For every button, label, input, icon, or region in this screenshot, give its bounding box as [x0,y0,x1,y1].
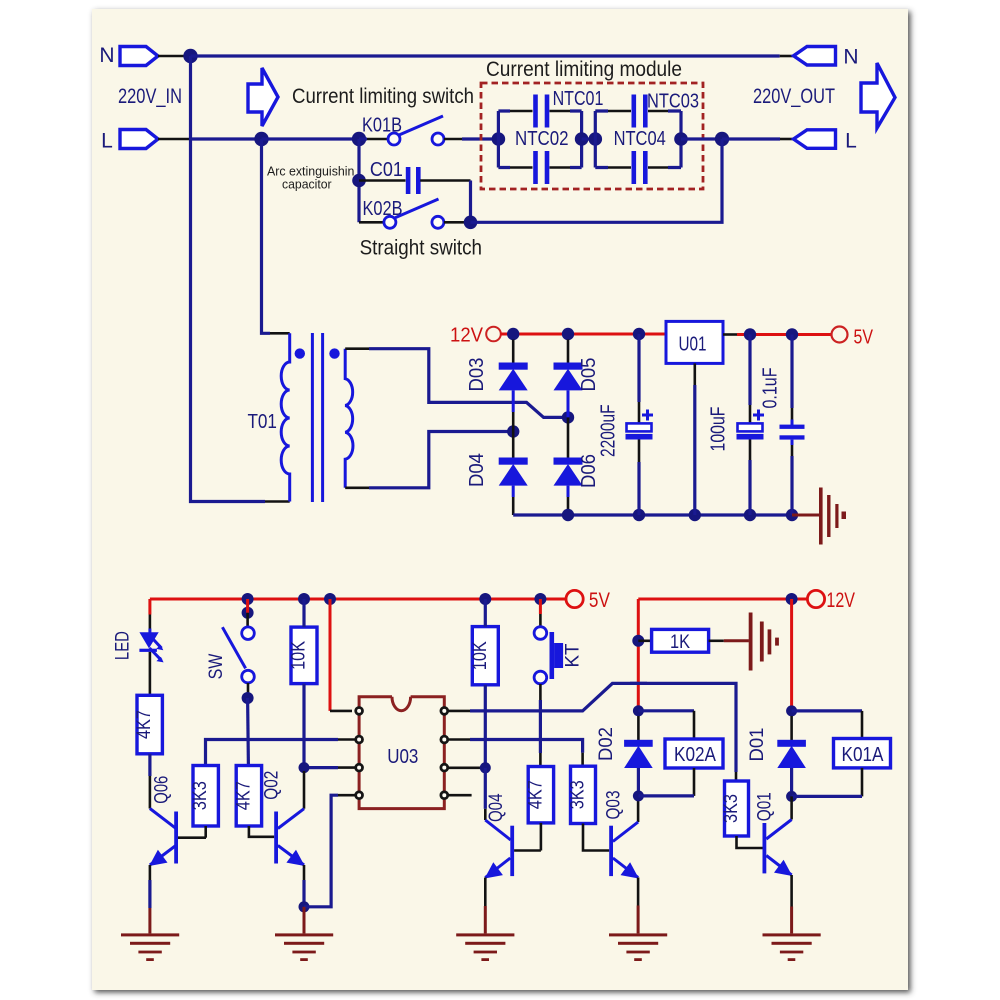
IC U03 pins left [356,708,363,715]
wire secondary bottom lead [345,486,369,489]
node group1 out dot [575,132,589,146]
svg-text:10K: 10K [470,641,491,670]
wire C01 down [469,181,472,223]
svg-text:Current limiting module: Current limiting module [486,58,682,81]
wire 12V rail [638,598,807,601]
wire pin5 stub [448,794,472,797]
arrow 220V_OUT direction [861,63,895,128]
node D02 top dot [633,705,644,716]
wire U01 ground pin [693,363,696,385]
diode D02 [637,716,640,740]
svg-text:SW: SW [205,653,227,679]
ground Q02 [275,933,333,936]
terminal 12V [486,327,501,342]
svg-text:10K: 10K [289,641,310,670]
svg-text:D04: D04 [466,453,488,487]
transformer polarity dot primary [295,348,305,358]
svg-text:4K7: 4K7 [525,780,546,809]
capacitor C-100uF [748,335,751,406]
wire K02B left lead [359,221,384,224]
resistor R-1K [638,639,651,642]
svg-text:K01A: K01A [842,744,885,766]
wire 12V right vertical (red) [790,599,793,711]
connector 220V_OUT N (pentagon) [794,47,836,66]
pushbutton KT [534,627,547,640]
node D3-D4 mid dot [507,425,519,437]
node 12V dot [786,593,798,605]
terminal 5V mid [832,327,848,343]
transformer polarity dot secondary [329,348,339,358]
regulator U01 [666,321,723,363]
connector 220V_IN N (pentagon) [120,47,158,66]
svg-text:NTC04: NTC04 [614,128,666,150]
LED D-LED [139,632,158,648]
node rail dots [562,509,574,521]
resistor R-10Kb [472,627,498,685]
wire 5V to U03 pin1 (red) [329,599,332,711]
wire C01 right lead [420,179,470,182]
svg-text:0.1uF: 0.1uF [759,368,781,409]
capacitor C-2200uF [637,334,640,402]
wire 10Kb leads [484,599,487,627]
svg-text:5V: 5V [854,327,874,349]
wire N stub [158,55,185,58]
wire 10Ka leads [302,599,305,627]
switch K02B [384,216,396,228]
capacitor C01 [406,167,411,194]
relay coil K02A [638,709,694,712]
svg-text:Q03: Q03 [603,791,625,820]
wire KT to 4K7c [539,684,542,700]
svg-text:12V: 12V [450,325,484,347]
wire L lead [192,137,262,140]
node C01 branch dot [352,174,366,188]
diode D03 [512,340,515,363]
thermistor NTC04 [632,151,637,184]
svg-text:D01: D01 [746,728,768,762]
thermistor NTC03 [632,95,637,128]
wire module to L out [681,137,722,140]
svg-text:D05: D05 [578,358,600,392]
capacitor C-0.1uF [790,335,793,409]
switch SW branch [242,607,254,619]
wire NTC group1 frame [498,111,581,168]
wire 12V left vertical (red) [637,599,640,711]
wire 12V rail [501,333,667,336]
svg-text:Current limiting switch: Current limiting switch [292,85,474,108]
resistor R-4K7c [528,767,553,823]
node L out junction [715,132,729,146]
thermistor NTC02 [533,151,538,184]
wire Q04 emitter ground [484,878,487,907]
node D05 top dot [562,328,574,340]
transistor Q03 [637,796,640,822]
node pin6 dot [480,762,491,773]
ground 1K (sideways) [749,613,753,671]
transistor Q06 [150,809,176,829]
wire KT branch [539,599,542,614]
diode D01 [790,716,793,740]
node 1K dot [632,635,644,647]
node C-0.1uF top dot [786,328,798,340]
svg-text:2200uF: 2200uF [598,404,620,457]
wire NTC group2 leads [608,111,668,168]
wire N stub right [780,55,795,58]
node group2 out dot [674,132,688,146]
ground mid (sideways) [819,488,823,545]
wire pin8 crossing patch [630,682,647,685]
wire secondary top lead [345,347,369,350]
node pin3 dot [299,762,310,773]
resistor R-3K3b [571,766,596,823]
transformer T01 core [311,333,314,502]
svg-text:NTC01: NTC01 [553,88,604,110]
svg-text:NTC02: NTC02 [515,128,569,150]
svg-text:Q06: Q06 [150,776,172,804]
wire arc-branch vertical [357,139,360,222]
wire 4K7b bottom to Q02 base [249,826,274,837]
svg-text:Q04: Q04 [485,793,507,822]
svg-text:100uF: 100uF [708,407,730,452]
svg-text:Q01: Q01 [754,792,776,821]
wire pin3 line [338,766,355,769]
svg-text:1K: 1K [670,632,690,653]
wire NTC group1 leads [510,111,570,168]
wire NTC group2 frame [595,111,681,168]
resistor R-4K7b [236,766,261,827]
svg-text:4K7: 4K7 [233,781,254,810]
svg-text:3K3: 3K3 [721,794,742,823]
resistor R-4K7a [137,695,162,754]
node L junction (arc branch) [352,132,366,146]
wire to mid ground [792,514,819,517]
wire pin8 line to 3K3c [448,710,470,713]
node group2 in dot [589,132,603,146]
svg-text:NTC03: NTC03 [647,91,699,113]
svg-text:4K7: 4K7 [134,710,155,739]
wire pin6 lead [448,766,480,769]
wire C01 left lead [359,179,406,182]
wire N-side to transformer primary [191,56,266,502]
svg-text:KT: KT [562,643,584,667]
wire SW bottom [247,683,250,693]
transformer T01 secondary winding [345,349,353,488]
svg-text:L: L [845,130,857,153]
svg-text:N: N [99,44,114,67]
switch SW [242,627,255,640]
node module in dot [492,132,506,146]
resistor R-10Ka [291,627,317,684]
terminal 12V bottom [807,590,824,607]
svg-text:D06: D06 [578,454,600,488]
wire K02B right lead [444,221,465,224]
wire ground rail [513,513,792,516]
connector 220V_IN L (pentagon) [120,130,158,149]
resistor R-3K3a [193,766,218,827]
svg-text:Straight switch: Straight switch [360,237,482,260]
wire pin7 line to 3K3b [448,738,470,741]
ground Q04 [456,933,514,936]
LED branch [148,599,151,615]
diode D05 [567,340,570,363]
ground Q01 [763,933,821,936]
svg-text:3K3: 3K3 [568,780,589,809]
transistor Q01 [790,796,793,819]
switch K01B [388,133,400,145]
node D5-D6 mid dot [562,411,574,423]
transistor Q02 [303,771,306,809]
svg-text:LED: LED [111,631,133,660]
wire Q01 emitter ground [790,875,793,907]
svg-text:U01: U01 [679,333,707,355]
terminal 5V bottom [566,590,583,607]
node D03 top dot [507,328,519,340]
wire 3K3b to Q03 base [583,824,609,851]
wire Q02 ground [303,907,306,934]
node D01 bottom dot [786,791,797,802]
wire L [262,137,360,140]
wire LED to R [149,652,152,695]
svg-text:12V: 12V [826,589,855,612]
node K02B out dot [464,216,478,230]
wire Q03 emitter ground [637,878,640,906]
node rail dots [242,593,254,605]
wire L stub [158,138,192,141]
svg-text:5V: 5V [589,589,610,612]
node D02 bottom dot [633,790,644,801]
IC U03 [359,697,444,809]
node L junction (transformer tap) [254,132,268,146]
resistor R-3K3c [725,781,749,836]
IC U03 pins right [441,708,448,715]
svg-text:3K3: 3K3 [190,781,211,810]
svg-text:D02: D02 [595,727,617,761]
transistor Q04 [484,768,487,809]
wire pin2 line [338,738,355,741]
svg-text:D03: D03 [466,358,488,392]
svg-text:N: N [843,46,858,69]
wire K01B to module [444,138,462,141]
diode D06 [567,417,570,458]
node Q02 emitter dot [299,901,310,912]
wire N top rail [191,54,780,57]
connector 220V_OUT L (pentagon) [794,130,836,149]
node N junction dot [183,49,197,63]
node C-100uF top dot [744,328,756,340]
svg-text:capacitor: capacitor [282,177,332,192]
svg-text:C01: C01 [370,159,403,181]
svg-text:Q02: Q02 [260,771,282,800]
svg-text:T01: T01 [247,410,277,433]
svg-text:L: L [101,130,113,153]
thermistor NTC01 [533,95,538,128]
wire straight-switch return [471,139,723,222]
svg-text:220V_IN: 220V_IN [118,84,182,108]
wire U01 output [723,333,737,336]
svg-text:220V_OUT: 220V_OUT [753,84,835,108]
node C-2200uF top dot [633,328,645,340]
diode D04 [512,432,515,459]
wire L out [722,137,780,140]
wire Q06 emitter to ground [149,865,152,880]
relay coil K01A [792,709,862,712]
ground Q03 [609,933,667,936]
wire pin4 line [338,794,355,797]
wire 3K3c to Q01 base [737,836,763,848]
wire to K01B [359,137,367,140]
module dashed box [481,83,703,189]
wire R to Q06 [148,754,151,776]
ground Q06 [121,933,179,936]
wire 3K3a bottom to Q06 base [204,826,207,838]
svg-text:U03: U03 [387,746,418,768]
transformer T01 primary winding [281,333,290,501]
wire L-side to transformer primary [262,139,271,333]
arrow 220V_IN direction [248,68,278,126]
wire 1K to ground [724,639,749,642]
wire Q02 emitter down [303,865,306,880]
svg-text:K02A: K02A [674,744,717,766]
wire 5V rail [150,598,566,601]
wire between groups [582,137,596,140]
node D01 top dot [786,705,797,716]
